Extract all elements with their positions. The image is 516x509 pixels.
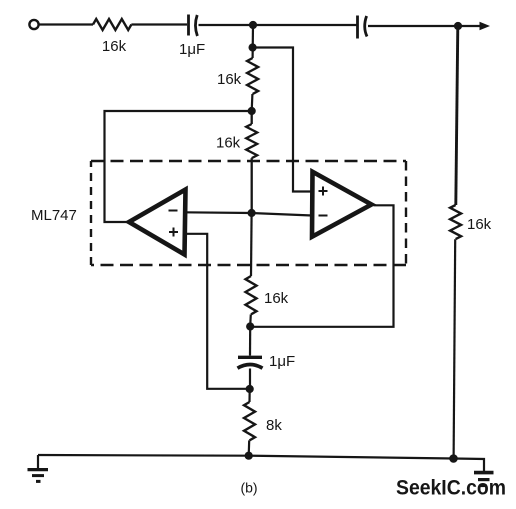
node: bottom right junction xyxy=(449,454,458,463)
node C (feedback junction) xyxy=(248,107,256,115)
output node (top right junction) xyxy=(454,22,462,30)
capacitor C3 1uF (center, polarized style) xyxy=(238,356,262,359)
svg-text:ML747: ML747 xyxy=(31,207,77,224)
capacitor C2 1uF (series output, top right) xyxy=(358,16,368,39)
wire: inverting input bus between the two op-amps xyxy=(184,212,312,215)
wire: output node down to right 16k resistor xyxy=(456,26,458,205)
wire: C2 to output node xyxy=(368,25,458,27)
op-amp U1 (left half of ML747, points left) xyxy=(129,190,186,255)
op-amp U2 (right half of ML747, points right) xyxy=(312,172,372,237)
wire: bottom ground rail xyxy=(38,455,484,471)
wire: node E to op-amp 2 output xyxy=(250,205,393,326)
capacitor C1 1uF (series input) xyxy=(189,15,198,37)
svg-text:1μF: 1μF xyxy=(179,41,205,58)
dashed IC boundary box (ML747) xyxy=(91,160,406,162)
wire: node A to node B to resistor R-top xyxy=(252,25,255,58)
resistor 16k (third center resistor) xyxy=(246,276,257,314)
wire: node D down to third resistor xyxy=(250,213,253,276)
wire: resistor to node C xyxy=(251,94,254,111)
ground (right) xyxy=(474,471,494,475)
output arrow xyxy=(458,25,480,27)
resistor 16k (right load, to ground) xyxy=(450,205,461,239)
wire: node E down to capacitor C3 xyxy=(249,327,251,356)
svg-text:1μF: 1μF xyxy=(269,353,295,370)
node E (op-amp 2 feedback junction) xyxy=(246,322,254,330)
resistor 8k (to bottom rail) xyxy=(244,402,255,440)
wire: node F to 8k resistor xyxy=(248,389,250,402)
wire: left end down to ground xyxy=(37,455,39,469)
wire: C1 to node A xyxy=(199,24,254,26)
ground (left) xyxy=(28,468,49,471)
op-amp U1 inverting input label (minus) xyxy=(169,210,178,212)
wire: input terminal to input resistor xyxy=(40,23,94,25)
resistor 16k (top of center divider) xyxy=(247,58,258,94)
input terminal (open circle) xyxy=(29,20,38,29)
svg-text:16k: 16k xyxy=(216,135,241,152)
svg-text:16k: 16k xyxy=(264,290,289,307)
wire: right 16k resistor down to bottom rail xyxy=(454,239,456,459)
resistor 16k (second center resistor) xyxy=(246,111,257,210)
wire: node B right and down to op-amp 2 + input xyxy=(253,48,312,192)
wire: C3 to node F xyxy=(249,369,251,386)
wire: feedback from node C to op-amp 1 output xyxy=(105,111,252,222)
wire: op-amp 1 + input to node F xyxy=(185,234,250,389)
op-amp U2 non-inverting input label (plus) xyxy=(319,187,328,196)
resistor 16k (series input) xyxy=(93,19,131,30)
node: bottom center junction xyxy=(245,452,253,460)
op-amp U2 inverting input label (minus) xyxy=(319,215,328,217)
node F (op-amp 1 + feedback junction) xyxy=(246,385,254,393)
svg-text:16k: 16k xyxy=(217,71,242,88)
wire: node A to capacitor C2 xyxy=(253,24,357,26)
svg-text:16k: 16k xyxy=(102,38,127,55)
node A (top of center column) xyxy=(249,21,257,29)
svg-text:(b): (b) xyxy=(240,480,257,496)
node B (branch to op-amp 2 non-inverting input) xyxy=(249,43,257,51)
node D (inverting bus junction) xyxy=(248,209,256,217)
svg-text:16k: 16k xyxy=(467,216,492,233)
svg-text:8k: 8k xyxy=(266,417,282,434)
wire: input resistor to capacitor C1 xyxy=(131,23,187,25)
op-amp U1 non-inverting input label (plus) xyxy=(169,228,178,237)
wire: third resistor to node E xyxy=(249,314,252,326)
wire: 8k resistor to bottom rail xyxy=(248,440,251,455)
